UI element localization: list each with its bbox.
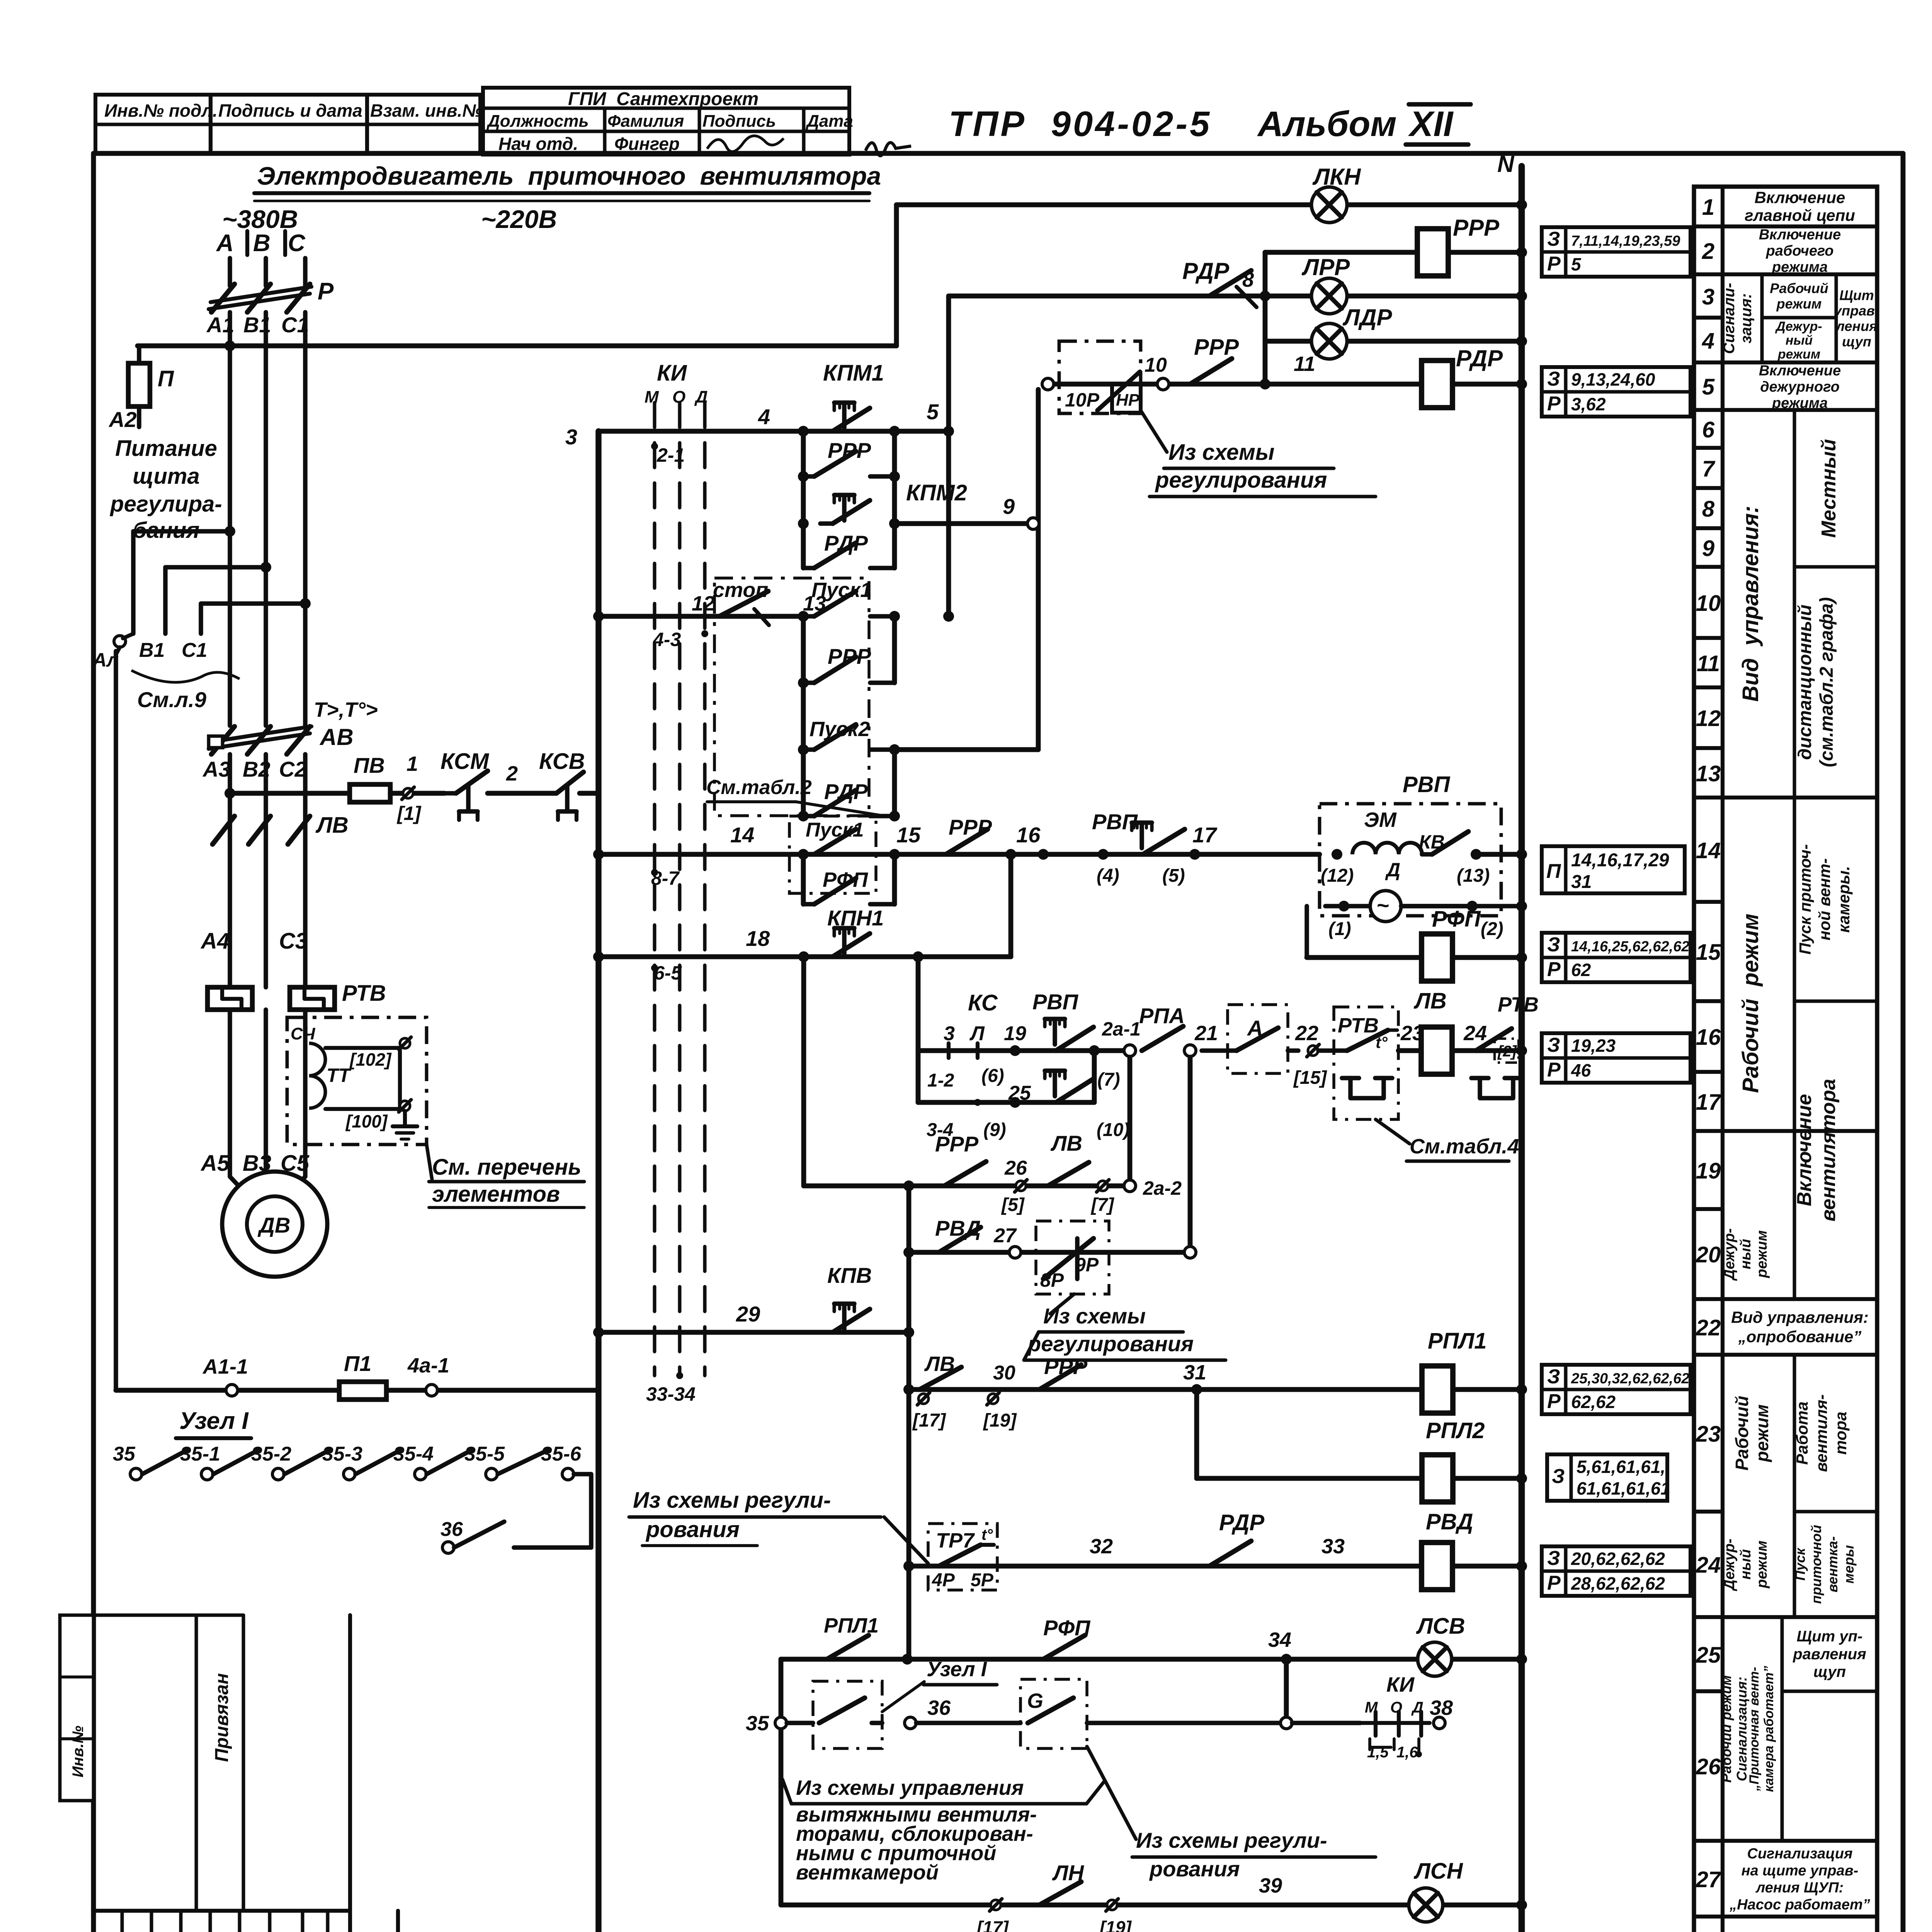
rung 35 36 G — [779, 1659, 784, 1905]
svg-text:35-2: 35-2 — [251, 1443, 291, 1465]
wire 2a-1 down to 2a-2 — [1128, 1057, 1133, 1179]
svg-text:12: 12 — [1696, 706, 1721, 731]
svg-text:22: 22 — [1696, 1315, 1721, 1340]
svg-text:РФП: РФП — [1432, 906, 1481, 932]
svg-text:36: 36 — [927, 1696, 951, 1719]
svg-text:35-6: 35-6 — [541, 1443, 582, 1465]
svg-text:ЭМ: ЭМ — [1364, 808, 1397, 832]
svg-text:РПЛ1: РПЛ1 — [1428, 1328, 1487, 1354]
svg-text:19,23: 19,23 — [1571, 1036, 1616, 1056]
svg-text:2а-1: 2а-1 — [1102, 1018, 1141, 1040]
function table row 19 — [1694, 1207, 1723, 1211]
rung 18 KPN1 — [599, 954, 1011, 959]
left control rail — [595, 431, 601, 1932]
svg-text:регулира-: регулира- — [109, 492, 222, 517]
svg-text:Узел I: Узел I — [927, 1658, 987, 1681]
svg-text:приточной: приточной — [1808, 1525, 1824, 1604]
svg-text:РДР: РДР — [1182, 258, 1230, 284]
svg-text:36: 36 — [440, 1518, 463, 1541]
reference table RPL2 — [1547, 1454, 1667, 1501]
svg-text:9: 9 — [1702, 536, 1714, 561]
svg-text:РРР: РРР — [949, 815, 992, 839]
svg-text:ЛРР: ЛРР — [1301, 254, 1350, 280]
automatic breaker AB — [211, 726, 235, 754]
function table row 13 — [1694, 796, 1723, 799]
svg-text:КИ: КИ — [657, 361, 687, 386]
svg-text:рабочего: рабочего — [1765, 243, 1833, 259]
svg-text:[7]: [7] — [1090, 1195, 1115, 1215]
svg-text:15: 15 — [1696, 940, 1721, 965]
reference table RVP — [1542, 846, 1685, 893]
svg-text:Р: Р — [1547, 253, 1561, 275]
svg-text:[17]: [17] — [976, 1917, 1009, 1932]
contact RFP parallel pusk1 — [801, 854, 806, 904]
svg-text:34: 34 — [1268, 1628, 1291, 1651]
svg-text:Р: Р — [1547, 1572, 1561, 1594]
thermal contact RTV in box — [1334, 1007, 1398, 1119]
svg-text:Пуск2: Пуск2 — [810, 718, 870, 741]
svg-text:Из схемы управления: Из схемы управления — [796, 1776, 1024, 1799]
check mark squiggle — [866, 143, 911, 156]
rung lamp LDR — [1265, 339, 1522, 344]
header table inventory strip — [95, 95, 480, 153]
svg-text:С1: С1 — [182, 639, 207, 662]
rows 6-13 vid upravleniya — [1723, 796, 1877, 799]
svg-text:30: 30 — [993, 1362, 1015, 1384]
uzel I reference box — [813, 1681, 882, 1748]
svg-text:КПМ2: КПМ2 — [906, 480, 967, 505]
svg-text:ной вент-: ной вент- — [1815, 858, 1833, 940]
rung 26 RRR LV 2a-2 — [804, 1184, 1124, 1189]
svg-text:Узел I: Узел I — [179, 1408, 249, 1434]
wire to KI probe 38 — [1292, 1721, 1360, 1725]
svg-text:2: 2 — [506, 762, 518, 785]
svg-text:КПВ: КПВ — [827, 1263, 872, 1287]
svg-text:РРР: РРР — [1453, 215, 1500, 241]
left margin stamp boxes — [60, 1615, 94, 1801]
svg-text:Фингер: Фингер — [614, 134, 680, 154]
svg-text:А1-1: А1-1 — [202, 1355, 248, 1378]
svg-text:ДВ: ДВ — [258, 1213, 291, 1237]
fuse P control — [137, 346, 141, 363]
wire stub RRR to RDR8 node — [1263, 252, 1268, 384]
svg-text:См.л.9: См.л.9 — [137, 687, 206, 712]
signature squiggle — [707, 136, 784, 151]
svg-text:6: 6 — [1702, 417, 1715, 442]
rows 3-4 signal cells — [1723, 361, 1877, 364]
svg-text:35-1: 35-1 — [180, 1443, 220, 1465]
svg-text:ТПР 904-02-5: ТПР 904-02-5 — [949, 104, 1212, 144]
svg-text:5: 5 — [927, 400, 939, 424]
svg-text:ПВ: ПВ — [354, 753, 385, 777]
relay coil RFP — [1307, 955, 1522, 960]
svg-text:27: 27 — [1696, 1867, 1722, 1892]
svg-text:режим: режим — [1776, 296, 1822, 312]
svg-text:(12): (12) — [1321, 866, 1354, 886]
svg-text:(7): (7) — [1097, 1070, 1120, 1090]
svg-text:Дежур-: Дежур- — [1721, 1539, 1738, 1592]
wire box bottom to RFP coil rung — [1304, 906, 1309, 957]
svg-text:Рабочий: Рабочий — [1732, 1396, 1752, 1471]
svg-text:35: 35 — [746, 1712, 769, 1735]
svg-text:РРР: РРР — [828, 644, 871, 668]
svg-text:Включение: Включение — [1759, 362, 1841, 379]
function table row 26 — [1694, 1839, 1723, 1843]
svg-text:З: З — [1547, 228, 1560, 250]
svg-text:9: 9 — [1003, 494, 1015, 519]
svg-text:дежурного: дежурного — [1760, 379, 1840, 395]
svg-text:35: 35 — [113, 1443, 136, 1465]
svg-text:Включение: Включение — [1793, 1094, 1816, 1206]
svg-text:[100]: [100] — [345, 1111, 388, 1131]
svg-text:См. перечень: См. перечень — [432, 1155, 582, 1180]
svg-text:щита: щита — [133, 464, 200, 489]
svg-text:Альбом: Альбом — [1257, 104, 1397, 144]
svg-text:5Р: 5Р — [971, 1570, 994, 1590]
svg-text:35-5: 35-5 — [464, 1443, 505, 1465]
svg-text:щуп: щуп — [1842, 334, 1871, 350]
svg-text:Вид управления:: Вид управления: — [1738, 506, 1763, 702]
svg-text:Рабочий: Рабочий — [1770, 281, 1828, 296]
svg-text:20: 20 — [1696, 1242, 1721, 1267]
svg-text:5: 5 — [1571, 254, 1582, 274]
svg-text:7: 7 — [1702, 456, 1716, 481]
svg-text:2а-2: 2а-2 — [1143, 1177, 1182, 1199]
svg-text:22: 22 — [1295, 1022, 1318, 1045]
svg-text:режима: режима — [1772, 259, 1828, 275]
neutral bus N — [1519, 166, 1525, 1932]
svg-text:19: 19 — [1696, 1158, 1721, 1184]
svg-text:XII: XII — [1408, 104, 1454, 144]
svg-text:3: 3 — [565, 425, 577, 449]
svg-text:19: 19 — [1004, 1022, 1026, 1045]
function table row 24 — [1694, 1615, 1723, 1619]
svg-text:9,13,24,60: 9,13,24,60 — [1571, 369, 1655, 389]
svg-text:[19]: [19] — [983, 1410, 1017, 1431]
wire down left to A1-1 — [114, 651, 118, 1390]
svg-text:КС: КС — [968, 990, 998, 1015]
svg-text:Фамилия: Фамилия — [607, 112, 684, 131]
svg-text:Щит уп-: Щит уп- — [1797, 1628, 1863, 1645]
changeover contact box 8R 9R — [1036, 1221, 1109, 1294]
svg-text:11: 11 — [1294, 352, 1315, 376]
svg-text:режим: режим — [1752, 1404, 1772, 1463]
ground symbol — [403, 1111, 407, 1126]
rung 34 RPL1 RFP LSV lamp — [781, 1657, 1522, 1662]
function table row 25 — [1694, 1689, 1723, 1693]
svg-text:вентка-: вентка- — [1825, 1536, 1840, 1592]
svg-text:4: 4 — [1702, 328, 1714, 354]
svg-text:[1]: [1] — [396, 803, 422, 824]
reference table LV — [1542, 933, 1690, 982]
svg-text:дистанционный: дистанционный — [1795, 605, 1815, 760]
wire 34 down to rung 36 — [1284, 1659, 1289, 1723]
terminal 36 mid — [905, 1717, 916, 1729]
svg-text:З: З — [1552, 1465, 1565, 1488]
row 22 vid upravleniya oprobovanie — [1723, 1297, 1877, 1301]
phase lines below AB — [228, 754, 232, 987]
svg-text:14: 14 — [730, 823, 754, 847]
svg-text:Должность: Должность — [486, 112, 589, 131]
svg-text:регулирования: регулирования — [1155, 468, 1327, 493]
contactor LV main contacts — [213, 816, 235, 844]
svg-text:В1: В1 — [139, 639, 165, 662]
svg-text:[2]: [2] — [1497, 1043, 1517, 1060]
svg-text:26: 26 — [1004, 1157, 1027, 1179]
svg-text:См.табл.4: См.табл.4 — [1410, 1135, 1519, 1158]
lower line of RVP box with sync contact — [1325, 904, 1522, 908]
svg-text:вентилятора: вентилятора — [1817, 1079, 1840, 1221]
svg-text:Д: Д — [694, 388, 708, 406]
rows 14-19 rabochiy rezhim — [1723, 1129, 1877, 1133]
terminal circle Al — [114, 636, 126, 647]
rung 27 RVD contact — [909, 1250, 1184, 1255]
svg-text:35-4: 35-4 — [393, 1443, 434, 1465]
svg-text:Инв.№ подл.: Инв.№ подл. — [104, 100, 218, 121]
function table row 14 — [1694, 900, 1723, 904]
svg-text:24: 24 — [1463, 1022, 1487, 1045]
thermal contact RTV right — [1476, 1029, 1512, 1051]
svg-text:КПМ1: КПМ1 — [823, 361, 884, 386]
motor DV — [222, 1172, 327, 1277]
svg-text:РРР: РРР — [935, 1132, 979, 1156]
rung A3 to rail via PV KSM KSV — [224, 788, 235, 799]
svg-text:Щит: Щит — [1839, 287, 1874, 303]
branch verticals at node4 node5 — [801, 431, 806, 568]
svg-text:6-5: 6-5 — [654, 962, 682, 984]
svg-text:Р: Р — [1547, 1390, 1561, 1413]
svg-text:Пуск: Пуск — [1792, 1548, 1808, 1581]
svg-text:ЛСН: ЛСН — [1413, 1859, 1463, 1884]
svg-text:3: 3 — [1702, 284, 1714, 310]
relay coil RRR — [1265, 250, 1522, 255]
svg-text:режима: режима — [1772, 395, 1828, 411]
function table row 15 — [1694, 999, 1723, 1003]
svg-text:Электродвигатель приточного: Электродвигатель приточного вентилятора — [257, 162, 881, 190]
row 24 pusk pritochnoy — [1723, 1615, 1877, 1619]
svg-text:3,62: 3,62 — [1571, 394, 1606, 414]
drawing frame border — [91, 153, 96, 1932]
function table row 6 — [1694, 446, 1723, 450]
rung 3 4 KPM1 5 — [599, 429, 949, 434]
function table row 5 — [1694, 408, 1723, 412]
svg-text:меры: меры — [1841, 1545, 1857, 1584]
svg-text:З: З — [1547, 1034, 1560, 1056]
function table number column — [1721, 187, 1725, 1932]
svg-text:[19]: [19] — [1099, 1917, 1132, 1932]
svg-text:ЛВ: ЛВ — [1413, 988, 1447, 1014]
svg-text:Р: Р — [1547, 393, 1561, 415]
svg-text:РВП: РВП — [1032, 990, 1079, 1014]
svg-text:Пуск приточ-: Пуск приточ- — [1796, 844, 1814, 955]
svg-text:28,62,62,62: 28,62,62,62 — [1571, 1573, 1665, 1594]
svg-text:ТТ: ТТ — [327, 1065, 352, 1086]
svg-text:С2: С2 — [279, 757, 307, 781]
svg-text:З: З — [1547, 934, 1560, 956]
dash-dot outline start-stop group — [714, 578, 869, 816]
function table row 20 — [1694, 1297, 1723, 1301]
svg-text:Из схемы регули-: Из схемы регули- — [633, 1488, 831, 1513]
svg-text:17: 17 — [1696, 1090, 1722, 1115]
svg-text:(9): (9) — [983, 1120, 1006, 1140]
contactor coil LV — [1421, 1027, 1452, 1074]
svg-text:1: 1 — [1702, 195, 1714, 220]
svg-text:ЛВ: ЛВ — [315, 813, 349, 838]
svg-text:2-1: 2-1 — [656, 444, 685, 466]
rung 19 upper with RVP contact — [918, 1048, 1130, 1053]
svg-text:КСМ: КСМ — [440, 749, 490, 774]
rung 30 31 RPL1 coil — [909, 1387, 1522, 1392]
svg-text:РДР: РДР — [1219, 1510, 1264, 1535]
KS branch vertical — [916, 957, 921, 1102]
svg-text:Работа: Работа — [1793, 1401, 1811, 1465]
svg-text:Питание: Питание — [115, 436, 217, 461]
function table row 16 — [1694, 1070, 1723, 1074]
svg-text:Дежур-: Дежур- — [1775, 319, 1822, 334]
svg-text:ления ЩУП:: ления ЩУП: — [1755, 1879, 1844, 1896]
svg-text:(2): (2) — [1481, 919, 1503, 939]
svg-text:t°: t° — [1376, 1033, 1388, 1051]
svg-text:рования: рования — [645, 1517, 740, 1542]
svg-text:ЛВ: ЛВ — [1050, 1131, 1082, 1155]
svg-text:Инв.№: Инв.№ — [70, 1726, 87, 1777]
svg-text:Рабочий режим: Рабочий режим — [1738, 913, 1763, 1093]
svg-text:Р: Р — [1547, 958, 1561, 981]
svg-text:(10): (10) — [1097, 1120, 1129, 1140]
svg-text:щуп: щуп — [1813, 1663, 1846, 1680]
svg-text:Включение: Включение — [1755, 189, 1845, 207]
svg-text:См.табл.2: См.табл.2 — [706, 776, 812, 799]
svg-text:РВД: РВД — [935, 1216, 981, 1240]
svg-text:(13): (13) — [1457, 866, 1490, 886]
function table row 9 — [1694, 565, 1723, 569]
fuse PV — [350, 784, 390, 802]
svg-text:Взам. инв.№: Взам. инв.№ — [370, 100, 483, 121]
svg-text:РДР: РДР — [1456, 345, 1503, 371]
svg-text:14,16,25,62,62,62: 14,16,25,62,62,62 — [1571, 939, 1689, 955]
function table row 4 — [1694, 361, 1723, 364]
rung 9 wire — [895, 521, 1028, 526]
brace see sheet 9 — [131, 670, 240, 682]
svg-text:26: 26 — [1696, 1754, 1721, 1779]
svg-text:12: 12 — [692, 592, 715, 615]
svg-text:РВП: РВП — [1403, 772, 1451, 797]
svg-text:4: 4 — [758, 405, 770, 429]
lower KS rung 25 with RVP contact — [918, 1100, 1094, 1105]
svg-text:Подпись: Подпись — [702, 112, 776, 131]
row 5 text Включение дежурного режима — [1723, 408, 1877, 412]
svg-text:Подпись и дата: Подпись и дата — [218, 100, 362, 121]
svg-text:39: 39 — [1259, 1874, 1282, 1897]
rung 12 stop 13 pusk1 — [599, 614, 803, 619]
svg-text:14,16,17,29: 14,16,17,29 — [1571, 850, 1669, 871]
svg-text:(6): (6) — [981, 1066, 1004, 1086]
svg-text:режим: режим — [1754, 1230, 1770, 1278]
svg-text:П1: П1 — [344, 1351, 371, 1376]
svg-text:АВ: АВ — [319, 724, 354, 750]
svg-text:Дата: Дата — [805, 112, 853, 131]
svg-text:4-3: 4-3 — [653, 629, 681, 650]
phase feeders A B C — [228, 258, 232, 286]
svg-text:[102]: [102] — [349, 1049, 392, 1070]
phase lines below breaker — [228, 312, 232, 726]
svg-text:ЛКН: ЛКН — [1312, 164, 1361, 190]
svg-text:З: З — [1547, 1366, 1560, 1388]
circuit breaker P — [211, 284, 235, 312]
rung 29 KPV — [599, 1330, 909, 1335]
svg-text:Сигнализация: Сигнализация — [1747, 1845, 1853, 1862]
svg-text:7,11,14,19,23,59: 7,11,14,19,23,59 — [1571, 233, 1680, 249]
function table row 2 — [1694, 272, 1723, 276]
svg-text:М: М — [645, 388, 659, 406]
svg-text:камера работает”: камера работает” — [1762, 1666, 1776, 1792]
rung 14 15 16 17 RVP timer — [599, 852, 1320, 857]
svg-text:33: 33 — [1321, 1535, 1345, 1558]
wire vertical 2455 to node5 — [946, 296, 951, 616]
svg-text:РТВ: РТВ — [342, 981, 386, 1006]
svg-text:11: 11 — [1697, 651, 1720, 676]
svg-text:32: 32 — [1090, 1535, 1113, 1558]
svg-text:Из схемы регули-: Из схемы регули- — [1136, 1828, 1327, 1852]
svg-text:С: С — [288, 230, 306, 257]
header table GPI Santehproekt — [483, 88, 849, 155]
svg-text:33-34: 33-34 — [646, 1383, 696, 1405]
reference table RVD — [1542, 1546, 1690, 1596]
wire 21 down to rung 27 — [1188, 1057, 1193, 1246]
wire A1 horizontal control tap — [138, 344, 896, 349]
svg-text:61,61,61,61: 61,61,61,61 — [1577, 1478, 1670, 1498]
rung lamp LKN — [896, 202, 1522, 207]
reference table RFP — [1542, 1033, 1690, 1083]
function table row 22 — [1694, 1353, 1723, 1357]
svg-text:режим: режим — [1754, 1541, 1770, 1588]
svg-text:31: 31 — [1183, 1361, 1206, 1384]
wire pusk2 node to terminal 9 drop — [895, 747, 1038, 752]
wire 9 to regulation scheme — [1036, 389, 1041, 750]
phase lines to motor — [228, 1010, 232, 1177]
svg-text:РПЛ2: РПЛ2 — [1426, 1418, 1485, 1443]
svg-text:СЧ: СЧ — [291, 1024, 315, 1043]
svg-text:камеры.: камеры. — [1835, 866, 1853, 933]
svg-text:З: З — [1547, 368, 1560, 390]
title block margin column line — [348, 1615, 352, 1932]
privyazan column — [195, 1615, 198, 1911]
svg-text:Из схемы: Из схемы — [1168, 440, 1274, 465]
svg-text:N: N — [1497, 151, 1515, 177]
svg-text:РРР: РРР — [828, 438, 871, 463]
flow sensor contact G box — [1020, 1679, 1087, 1748]
function table row 7 — [1694, 486, 1723, 490]
accident contact box A — [1228, 1005, 1288, 1073]
svg-text:венткамерой: венткамерой — [796, 1861, 939, 1884]
svg-text:23: 23 — [1696, 1422, 1721, 1447]
svg-text:20,62,62,62: 20,62,62,62 — [1571, 1549, 1665, 1569]
wire A1-1 P1 4a-1 — [116, 1388, 599, 1393]
svg-text:ления: ления — [1835, 318, 1878, 334]
branch verticals start group — [801, 616, 806, 816]
svg-text:(1): (1) — [1328, 919, 1351, 939]
svg-text:З: З — [1547, 1547, 1560, 1570]
reference table RDR — [1542, 367, 1690, 417]
svg-text:18: 18 — [746, 926, 770, 951]
svg-text:21: 21 — [1194, 1022, 1218, 1045]
control block terminals box 10R NR — [1059, 341, 1141, 413]
function table outer frame — [1694, 187, 1877, 1932]
svg-text:14: 14 — [1696, 838, 1721, 863]
svg-text:вентиля-: вентиля- — [1812, 1395, 1830, 1472]
svg-text:Привязан: Привязан — [212, 1673, 232, 1762]
reference table RPL1 — [1542, 1365, 1690, 1414]
